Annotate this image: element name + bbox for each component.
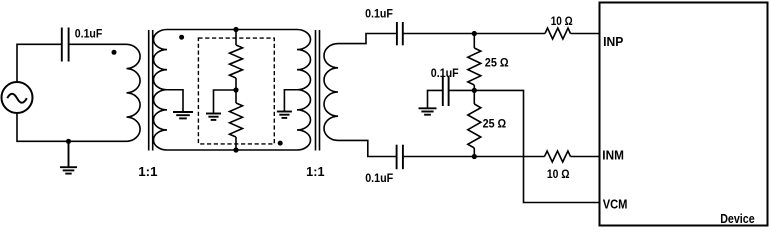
wire 25 ohm bottom to INM rail <box>473 148 475 157</box>
ground (dashed box mid) <box>206 114 221 120</box>
node INP rail junction <box>472 31 477 36</box>
node top rail junction <box>233 27 238 32</box>
transformer T1 primary winding <box>127 44 141 141</box>
resistor R2 (lower, dashed box) <box>230 103 243 137</box>
node mid junction <box>233 87 238 92</box>
voltage source VS (AC sine source) <box>2 82 33 113</box>
T1 secondary phase dot <box>179 35 184 40</box>
T1 secondary center tap wire <box>167 90 183 112</box>
node mid (VCM) junction <box>472 88 477 93</box>
T2 core <box>316 30 320 151</box>
transformer T2 primary winding <box>297 30 311 151</box>
transformer T1 secondary winding <box>153 30 167 151</box>
wire mid node to 25 ohm bottom <box>473 90 475 104</box>
wire node to R 10 top <box>474 33 545 35</box>
svg-text:Device: Device <box>720 212 755 226</box>
resistor 25 ohm (bottom) <box>468 104 481 148</box>
wire R1 to mid node <box>235 78 237 90</box>
svg-text:0.1uF: 0.1uF <box>431 67 459 80</box>
wire R2 to bottom rail <box>235 137 237 150</box>
capacitor C4 0.1uF (bypass) <box>443 76 449 106</box>
top rail wire (T1s to T2p) <box>167 29 297 31</box>
svg-text:0.1uF: 0.1uF <box>365 172 393 185</box>
wire mid node to ground <box>214 90 237 114</box>
node INM rail junction <box>472 154 477 159</box>
VCM wire from mid node to device <box>474 90 599 202</box>
wire node to R 10 bottom <box>474 156 544 158</box>
wire mid node to C4 <box>449 89 475 91</box>
svg-text:10 Ω: 10 Ω <box>547 168 570 181</box>
svg-text:1:1: 1:1 <box>138 165 157 179</box>
wire R10 to device INM <box>571 156 600 158</box>
wire C3 to INM node <box>403 156 474 158</box>
resistor 10 ohm (bottom) <box>545 151 571 162</box>
resistor 10 ohm (top) <box>545 28 571 39</box>
svg-text:INP: INP <box>603 35 623 49</box>
wire R10 to device INP <box>571 33 600 35</box>
svg-text:INM: INM <box>602 149 624 163</box>
resistor 25 ohm (top) <box>468 48 481 85</box>
wire T2s top to C2 (with jog) <box>338 34 397 44</box>
wire source bottom rail <box>17 113 127 141</box>
ground (T1 secondary tap) <box>173 112 193 118</box>
T1 primary phase dot <box>112 50 117 55</box>
wire node to 25 ohm top <box>473 34 475 49</box>
capacitor C3 0.1uF <box>397 145 403 170</box>
ground (T2 primary tap) <box>277 112 292 118</box>
transformer T2 secondary winding <box>324 44 338 141</box>
ground (bypass) <box>419 108 437 114</box>
ground (source bottom) <box>60 141 77 173</box>
bottom rail wire (T1s to T2p) <box>167 149 297 151</box>
svg-text:10 Ω: 10 Ω <box>551 15 573 28</box>
wire 25 ohm top to mid node <box>473 85 475 90</box>
wire T2s bottom to C3 (with jog) <box>338 140 397 156</box>
wire source top to C1 <box>17 44 62 82</box>
svg-text:0.1uF: 0.1uF <box>365 8 393 21</box>
wire stem to R1 <box>235 30 237 46</box>
node bottom rail junction <box>233 147 238 152</box>
wire C4 to ground <box>428 90 443 108</box>
svg-text:1:1: 1:1 <box>306 165 324 179</box>
capacitor C2 0.1uF <box>397 22 403 45</box>
wire C1 to T1 primary <box>69 43 127 45</box>
svg-text:25 Ω: 25 Ω <box>485 57 509 70</box>
dashed box (termination network) <box>198 38 274 144</box>
capacitor C1 0.1uF <box>62 28 69 62</box>
T2 primary center tap wire <box>284 90 297 112</box>
device U1 box <box>600 3 768 226</box>
svg-text:VCM: VCM <box>603 198 628 212</box>
resistor R1 (upper, dashed box) <box>230 45 243 78</box>
wire C2 to INP node <box>403 33 475 35</box>
node junction on bottom rail <box>66 139 71 144</box>
T2 primary phase dot <box>278 141 283 146</box>
wire mid node to R2 <box>235 90 237 103</box>
svg-text:0.1uF: 0.1uF <box>75 28 103 41</box>
svg-text:25 Ω: 25 Ω <box>483 117 507 130</box>
T1 core <box>149 30 153 151</box>
